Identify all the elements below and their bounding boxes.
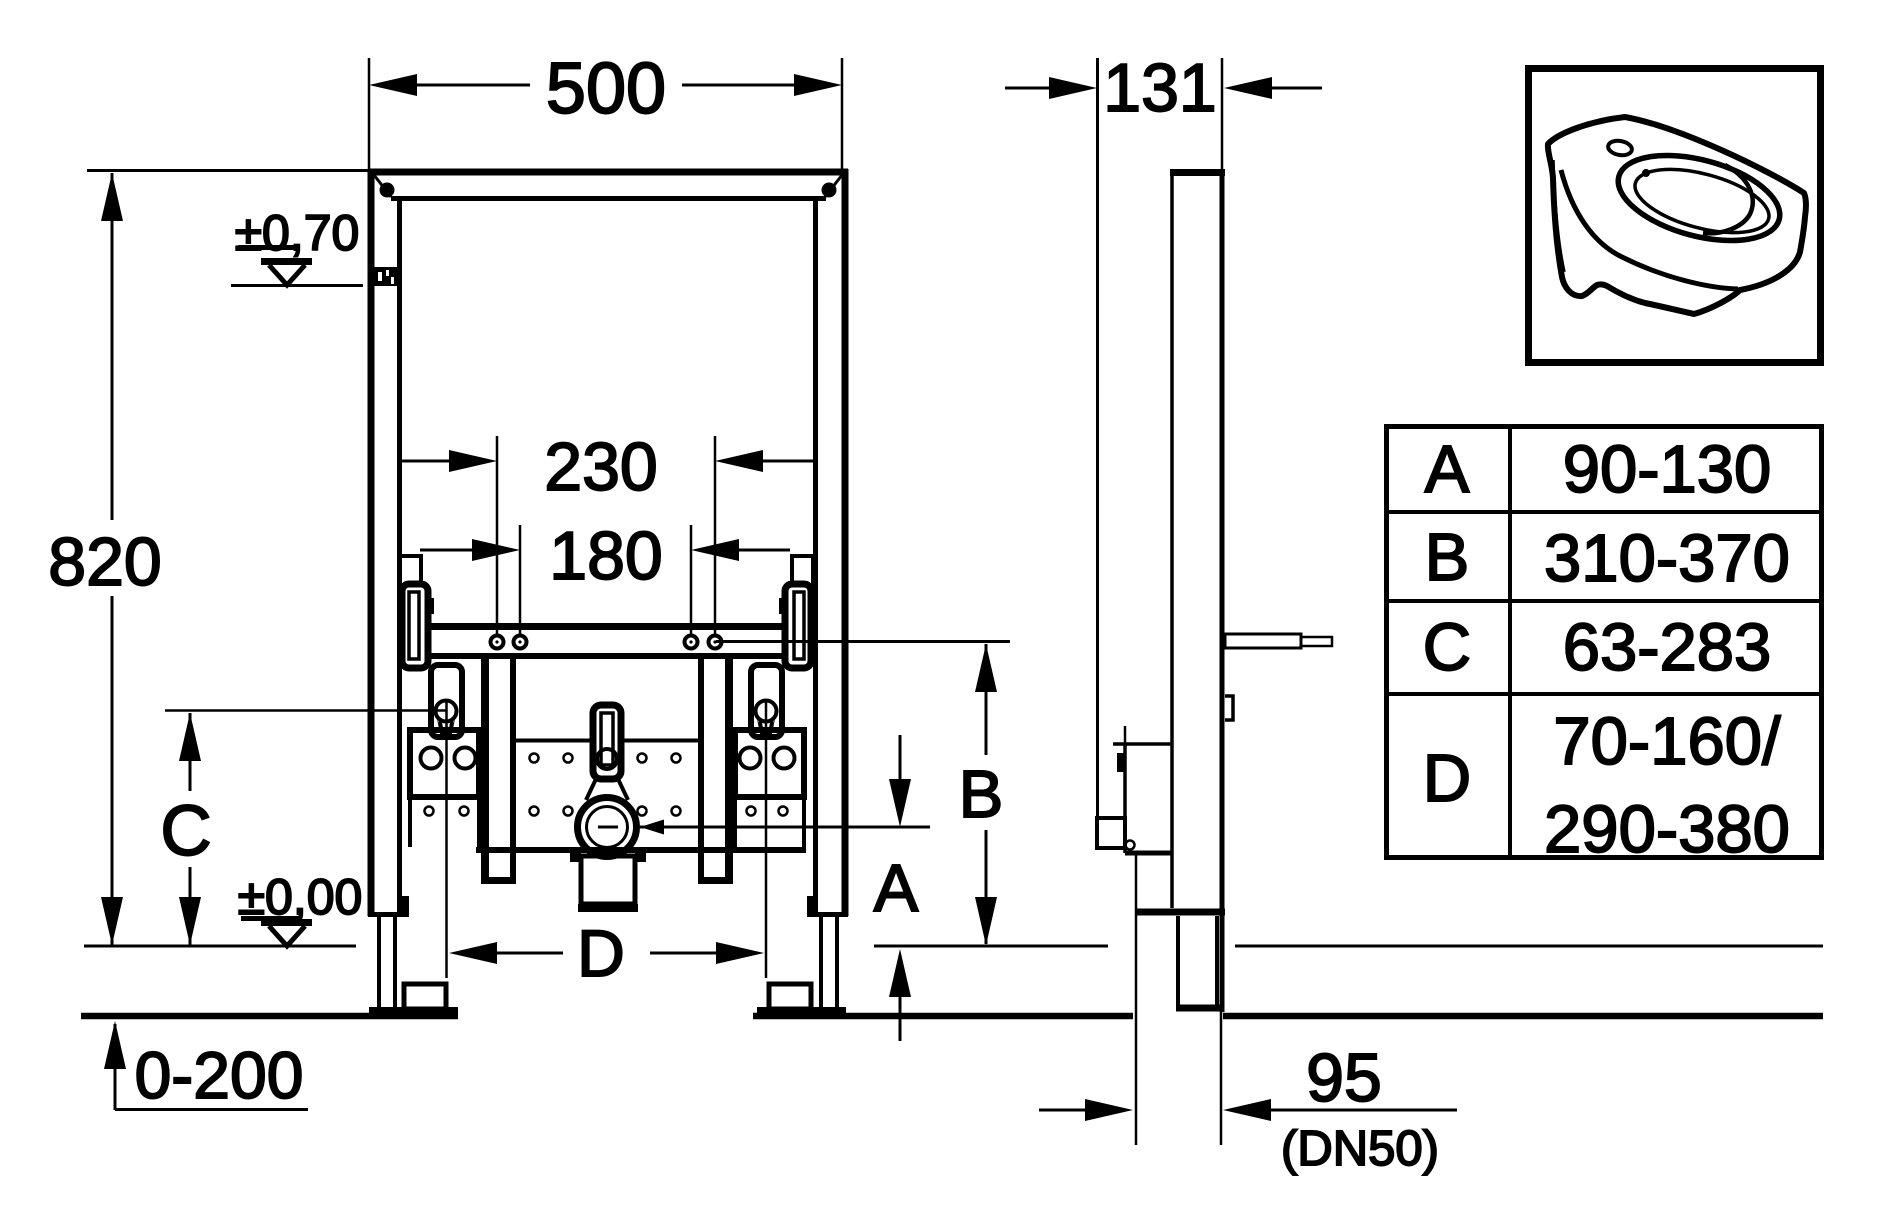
right leg pad nub bbox=[807, 896, 814, 917]
svg-text:0-200: 0-200 bbox=[135, 1038, 304, 1112]
centre plate bottom line bbox=[476, 847, 806, 853]
table frame bbox=[1386, 426, 1822, 858]
side view profile left edge bbox=[1170, 176, 1174, 908]
crossbar bottom line bbox=[428, 653, 785, 659]
side view profile bottom bbox=[1136, 909, 1225, 916]
frame right rail inner line bbox=[813, 196, 818, 916]
dimension D bbox=[447, 700, 767, 978]
frame front view: top reference line bbox=[87, 169, 368, 172]
svg-text:D: D bbox=[577, 916, 625, 990]
svg-text:310-370: 310-370 bbox=[1544, 521, 1790, 596]
side view profile right edge bbox=[1220, 169, 1225, 1012]
left bracket slot piece bbox=[402, 584, 434, 668]
dimension C bbox=[165, 711, 446, 946]
right bracket slot piece bbox=[779, 584, 811, 668]
right bracket upper connector bbox=[792, 556, 813, 585]
crossbar bolt hole 4 bbox=[709, 636, 722, 649]
dimension 0-200 bbox=[104, 1021, 308, 1110]
crossbar top line bbox=[428, 623, 785, 630]
frame left rail inner line bbox=[397, 196, 402, 916]
svg-text:A: A bbox=[1425, 432, 1470, 507]
left leg pad nub bbox=[402, 896, 409, 917]
left foot base bbox=[369, 1007, 458, 1019]
left foot tube bbox=[379, 917, 395, 1009]
side view foot tube bbox=[1178, 916, 1217, 1006]
dimension 95 bbox=[1039, 1099, 1457, 1121]
floor line bbox=[81, 1013, 1823, 1020]
dimension B bbox=[975, 644, 997, 946]
centre plate holes bbox=[530, 754, 681, 816]
right foot pad bbox=[769, 984, 811, 1009]
leader line from drain (A top) bbox=[640, 820, 930, 835]
side view wall line bbox=[1096, 58, 1099, 818]
svg-text:±0,00: ±0,00 bbox=[238, 869, 363, 925]
svg-text:63-283: 63-283 bbox=[1563, 610, 1772, 685]
side view drain pipe lines bbox=[1136, 853, 1221, 1145]
svg-text:131: 131 bbox=[1103, 50, 1216, 126]
zero level line bbox=[84, 945, 1823, 948]
svg-text:70-160/: 70-160/ bbox=[1553, 704, 1781, 779]
left bracket keyhole body bbox=[431, 665, 462, 738]
crossbar bolt hole 3 bbox=[685, 636, 698, 649]
dimension 180 bbox=[420, 525, 790, 634]
left leg step bbox=[368, 912, 402, 917]
svg-text:±0,70: ±0,70 bbox=[235, 205, 360, 261]
svg-text:500: 500 bbox=[546, 49, 666, 129]
frame right rail outer line bbox=[842, 169, 849, 916]
side view threaded rod bbox=[1225, 634, 1332, 648]
bidet icon box bbox=[1529, 69, 1821, 363]
left foot pad bbox=[404, 984, 446, 1009]
bidet drawing bbox=[1548, 117, 1806, 314]
left bracket block bbox=[410, 730, 479, 847]
frame left rail outer line bbox=[368, 169, 375, 916]
frame corner screw left bbox=[380, 183, 395, 198]
svg-text:820: 820 bbox=[48, 524, 161, 600]
drain funnel bbox=[570, 850, 646, 908]
left stud bbox=[481, 659, 516, 881]
svg-text:(DN50): (DN50) bbox=[1281, 1122, 1439, 1176]
level mark +-0,70 bbox=[231, 248, 363, 286]
leader line from bolt holes (B top) bbox=[716, 640, 1010, 643]
right foot base bbox=[757, 1007, 846, 1019]
side view clip bbox=[1225, 696, 1233, 720]
right leg step bbox=[813, 912, 848, 917]
crossbar bolt hole 1 bbox=[491, 636, 504, 649]
dimension 500 bbox=[369, 58, 842, 169]
centre fitting slot bbox=[586, 705, 628, 800]
dimension 131 bbox=[1005, 58, 1322, 169]
dimension 820 bbox=[101, 173, 123, 945]
dimension 230 bbox=[402, 436, 813, 634]
frame corner screw right bbox=[822, 183, 837, 198]
level mark +-0,00 bbox=[241, 919, 312, 947]
right foot tube bbox=[821, 917, 837, 1009]
side view wall end box bbox=[1097, 818, 1125, 848]
frame corner diagonal right bbox=[825, 175, 842, 197]
frame top bar outer line bbox=[368, 169, 848, 176]
side view foot bottom bbox=[1176, 1005, 1222, 1012]
right stud bbox=[698, 659, 733, 881]
svg-text:B: B bbox=[1425, 520, 1470, 595]
frame top bar inner line bbox=[391, 196, 826, 201]
drain circle bbox=[578, 798, 637, 857]
svg-text:C: C bbox=[160, 792, 211, 871]
side view profile top bbox=[1170, 169, 1225, 176]
svg-text:180: 180 bbox=[549, 518, 662, 594]
crossbar bolt hole 2 bbox=[514, 636, 527, 649]
svg-text:C: C bbox=[1423, 610, 1471, 685]
svg-text:A: A bbox=[874, 851, 919, 926]
svg-text:95: 95 bbox=[1306, 1040, 1382, 1116]
svg-text:230: 230 bbox=[544, 429, 657, 505]
dimension A bbox=[889, 735, 911, 1041]
DZ stamp on rail bbox=[373, 267, 400, 286]
frame corner diagonal left bbox=[374, 175, 391, 197]
left bracket upper connector bbox=[400, 556, 421, 585]
svg-text:90-130: 90-130 bbox=[1563, 432, 1772, 507]
svg-text:D: D bbox=[1423, 741, 1471, 816]
svg-text:B: B bbox=[959, 757, 1004, 832]
right bracket block bbox=[735, 730, 804, 847]
svg-text:290-380: 290-380 bbox=[1544, 792, 1790, 867]
right bracket keyhole body bbox=[751, 665, 782, 738]
centre plate top line bbox=[513, 739, 701, 743]
side view wall bracket bbox=[1113, 726, 1172, 853]
